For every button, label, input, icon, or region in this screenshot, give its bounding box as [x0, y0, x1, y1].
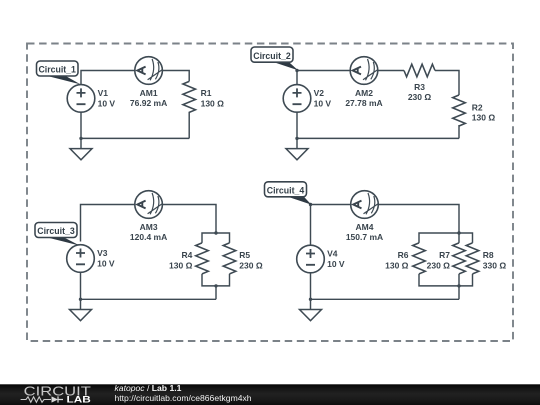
node junction C3 mid [214, 284, 217, 287]
svg-text:130 Ω: 130 Ω [472, 113, 496, 123]
node junction C4 net bottom [457, 284, 460, 287]
svg-text:R8: R8 [483, 250, 494, 260]
ground C1 [70, 138, 92, 159]
svg-text:AM1: AM1 [140, 88, 158, 98]
node junction C4 bottom [309, 298, 312, 301]
label V1 value [98, 88, 116, 108]
label box Circuit_2 [251, 47, 293, 62]
label R1 value [201, 88, 225, 108]
logo diode [52, 396, 59, 402]
svg-text:330 Ω: 330 Ω [483, 261, 507, 271]
label R3 value [408, 82, 432, 102]
svg-text:AM4: AM4 [356, 222, 374, 232]
svg-text:R4: R4 [182, 250, 193, 260]
label R8 value [483, 250, 507, 270]
resistor R3 [404, 64, 435, 77]
label R2 value [472, 102, 496, 122]
svg-text:230 Ω: 230 Ω [427, 261, 451, 271]
wire V1 top to R1 top [81, 71, 189, 96]
wire network bottom bar [419, 274, 473, 286]
label pointer Circuit_1 [45, 75, 81, 85]
svg-text:AM3: AM3 [140, 222, 158, 232]
svg-text:150.7 mA: 150.7 mA [346, 232, 383, 242]
footer bar [0, 384, 540, 405]
svg-text:R3: R3 [414, 82, 425, 92]
ammeter AM1 [135, 57, 163, 85]
wire V1 bottom rail [81, 105, 189, 138]
label AM3 value [130, 222, 167, 242]
resistor R1 [183, 81, 196, 112]
label R6 value [385, 250, 409, 270]
ground C4 [300, 299, 322, 320]
wire network to bottom rail [215, 286, 217, 299]
svg-text:76.92 mA: 76.92 mA [130, 98, 167, 108]
ground C3 [70, 299, 92, 320]
svg-text:230 Ω: 230 Ω [408, 92, 432, 102]
wire network bottom bar [202, 274, 230, 286]
resistor R7 [453, 243, 466, 274]
wire V2 bottom rail [297, 105, 459, 138]
label AM2 value [345, 88, 382, 108]
svg-text:R5: R5 [239, 250, 250, 260]
svg-text:Circuit_4: Circuit_4 [267, 186, 305, 196]
label R4 value [169, 250, 193, 270]
svg-text:AM2: AM2 [355, 88, 373, 98]
wire R1 bottom [188, 112, 190, 139]
ground C2 [286, 138, 308, 159]
svg-text:Circuit_1: Circuit_1 [38, 65, 76, 75]
label box Circuit_1 [37, 61, 79, 76]
voltage source V4 [297, 245, 325, 273]
svg-text:R1: R1 [201, 88, 212, 98]
logo resistor squiggle [21, 397, 51, 403]
voltage source V3 [67, 245, 95, 273]
label V4 value [327, 249, 345, 269]
wire network to bottom rail [458, 286, 460, 299]
ammeter AM2 [350, 57, 378, 85]
voltage source V2 [283, 85, 311, 113]
svg-text:Circuit_2: Circuit_2 [253, 51, 291, 61]
svg-text:R6: R6 [398, 250, 409, 260]
resistor R4 [196, 243, 209, 274]
resistor R5 [223, 243, 236, 274]
node junction C4 net top [457, 231, 460, 234]
label pointer Circuit_3 [45, 236, 80, 245]
label pointer Circuit_2 [271, 61, 298, 70]
label V2 value [314, 88, 332, 108]
label AM1 value [130, 88, 167, 108]
wire V3 bottom rail [81, 269, 217, 299]
node junction C4 top [309, 203, 312, 206]
wire network top bar [202, 233, 230, 243]
label R5 value [239, 250, 263, 270]
schematic dashed border [27, 44, 513, 342]
label R7 value [427, 250, 451, 270]
svg-text:120.4 mA: 120.4 mA [130, 232, 167, 242]
resistor R8 [466, 243, 479, 274]
svg-text:V3: V3 [97, 248, 108, 258]
svg-text:V1: V1 [98, 88, 109, 98]
svg-text:R2: R2 [472, 102, 483, 112]
label box Circuit_4 [265, 182, 307, 197]
svg-text:V4: V4 [327, 249, 338, 259]
wire V3 top to network top [81, 205, 217, 242]
node junction C1 [79, 137, 82, 140]
svg-text:27.78 mA: 27.78 mA [345, 98, 382, 108]
svg-text:Circuit_3: Circuit_3 [37, 226, 75, 236]
wire R2 bottom [458, 125, 460, 138]
node junction C2 top [295, 69, 298, 72]
svg-text:http://circuitlab.com/ce866etk: http://circuitlab.com/ce866etkgm4xh [115, 393, 252, 403]
wire V2 top to R3 [297, 71, 404, 96]
resistor R2 [453, 95, 466, 126]
label pointer Circuit_4 [286, 196, 311, 205]
voltage source V1 [67, 85, 95, 113]
resistor R6 [413, 243, 426, 274]
wire network top bar [419, 233, 473, 243]
svg-text:130 Ω: 130 Ω [201, 99, 225, 109]
svg-text:130 Ω: 130 Ω [169, 261, 193, 271]
node junction C2 bottom [295, 137, 298, 140]
wire V4 top to network top [311, 205, 460, 246]
ammeter AM3 [135, 191, 163, 219]
label box Circuit_3 [35, 223, 77, 238]
wire V4 bottom rail [311, 269, 460, 299]
svg-text:LAB: LAB [67, 395, 92, 405]
svg-text:10 V: 10 V [314, 98, 332, 108]
node junction C3 top [214, 231, 217, 234]
label V3 value [97, 248, 115, 268]
svg-text:R7: R7 [439, 250, 450, 260]
ammeter AM4 [351, 191, 379, 219]
svg-text:230 Ω: 230 Ω [239, 261, 263, 271]
node junction C3 bottom [79, 298, 82, 301]
wire R3 to R2 [435, 71, 459, 96]
svg-text:V2: V2 [314, 88, 325, 98]
svg-text:10 V: 10 V [97, 258, 115, 268]
svg-text:10 V: 10 V [98, 98, 116, 108]
svg-text:10 V: 10 V [327, 259, 345, 269]
svg-text:130 Ω: 130 Ω [385, 261, 409, 271]
label AM4 value [346, 222, 383, 242]
svg-text:katopoc / Lab 1.1: katopoc / Lab 1.1 [115, 383, 182, 393]
